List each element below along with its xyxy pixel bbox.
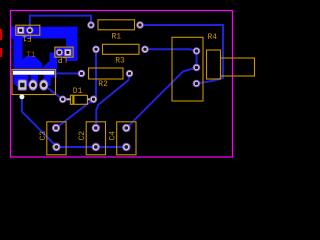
wire R1 to R4 pad3 [140,25,223,84]
wire D1 right to C3 top [56,99,94,128]
board outline keepout [11,11,233,158]
pad F1.2 round [26,27,34,35]
wire wedge to LP band [42,61,49,75]
pad C2.1 [92,124,100,132]
resistor R1 [98,20,135,30]
pad F1.1 square [17,27,24,34]
white silkscreen bar [13,71,54,75]
wire R2 right to C2 top [96,74,129,128]
pad C3.2 [52,143,60,151]
pad R4.3 [193,80,201,88]
pad R2.1 [78,70,86,78]
svg-text:D1: D1 [73,87,83,96]
pad C4.2 [122,143,130,151]
svg-text:R4: R4 [208,33,218,42]
capacitor C4 [117,122,136,155]
thin traces [22,16,223,147]
svg-text:C4: C4 [109,131,118,141]
wire R4 pad1 to pad2 [196,51,198,68]
wire T1 pad3 to D1 left [44,85,63,99]
wire bottom caps bus [56,146,126,148]
wire stub pad1 T1 [16,70,28,86]
svg-text:R1: R1 [112,32,122,41]
wire thick blob center [23,56,43,75]
wire via to C3 bottom [22,97,57,146]
svg-text:T1: T1 [26,51,36,60]
capacitor C2 [86,122,105,155]
pad LP.2 square [64,49,71,56]
wire R3 to R4 pad1 [145,49,197,51]
svg-text:R2: R2 [98,80,108,89]
svg-text:C2: C2 [78,131,87,141]
pad R2.2 [126,70,134,78]
red bar left 2 [0,48,2,57]
pad D1.1 [59,96,67,104]
via below T1 pad1 [19,94,24,99]
wire LP interior band [55,47,78,57]
pad T1.3 oval [39,79,48,90]
svg-text:R3: R3 [115,56,125,65]
capacitor C3 [47,122,66,155]
svg-text:C3: C3 [39,131,48,141]
wire R4 pad2 to C4 top [127,68,196,128]
pad LP.1 round [56,49,64,57]
pad R1.2 [136,21,144,29]
wire stub pad2 T1 [31,70,38,86]
connector T1 body [12,70,56,95]
svg-text:F1: F1 [22,33,32,42]
pad R4.1 [193,47,201,55]
thick copper pour: top band [11,27,78,86]
pad D1.2 [90,96,98,104]
resistor R2 [89,68,124,79]
pad R1.1 [87,21,95,29]
pad R4.2 [193,64,201,72]
resistor R3 [103,44,140,54]
pad C2.2 [92,143,100,151]
wire LP band to R2 left [57,72,82,74]
pad C3.1 [52,124,60,132]
fuse F1 outline [16,25,40,35]
part LP outline [55,47,73,57]
pad C4.1 [122,124,130,132]
pad T1.1 oval [18,79,27,90]
pad T1.2 oval [28,79,37,90]
lead stubs gray D1 [65,98,92,100]
red bar left 1 [0,29,2,40]
pad R3.2 [141,46,149,54]
pads: round type (gray ring, violet rim, black hole) [52,21,201,151]
pad R3.1 [92,46,100,54]
wire thick band left vertical [14,27,23,85]
potentiometer R4 body [172,37,255,101]
wire R3 left to D1 right [94,49,97,99]
wire thick band right vertical [66,27,78,61]
wire F1 to R1 [30,16,91,31]
wire stub pad3 T1 [44,70,51,86]
wire LP vertical band [50,53,58,78]
diode D1 [70,95,87,104]
